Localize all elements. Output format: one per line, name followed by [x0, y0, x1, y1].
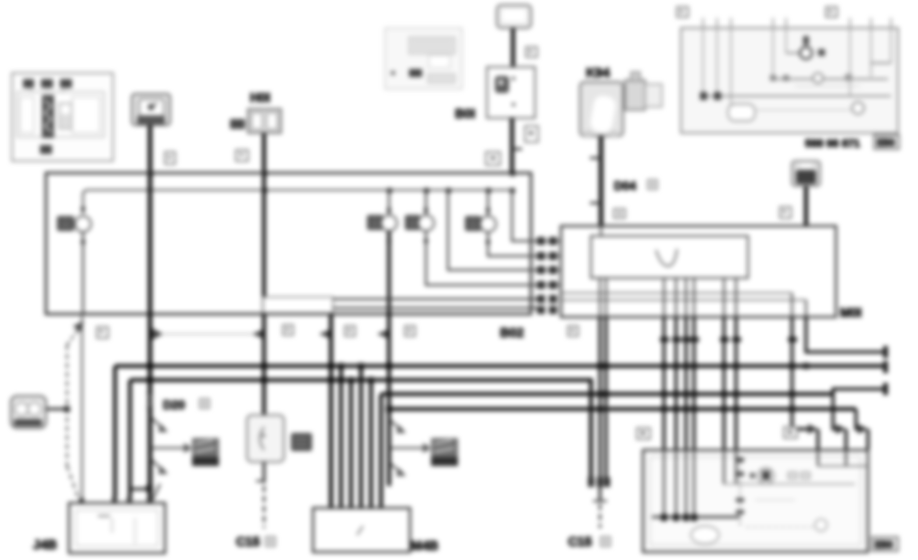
wire M4B 3 from bus2 — [349, 380, 353, 508]
wire M0I to E-box f — [735, 317, 738, 450]
pin square on E-box top left — [637, 428, 650, 439]
wire below junction — [599, 487, 602, 501]
wire connector P to M0I — [804, 186, 808, 226]
dark label right of I4B — [291, 433, 312, 451]
wire M4B 2 from bus1 — [339, 366, 343, 508]
wire M0I right g to arrow — [792, 317, 808, 429]
stub on B0I wire — [512, 148, 522, 150]
bus wire 3 — [381, 392, 833, 396]
wires M0I down to C15 right — [599, 317, 602, 484]
node lamp junction — [64, 406, 70, 412]
wire row5 from inner rect — [333, 298, 537, 300]
shield/ground symbol S2 — [431, 438, 458, 466]
wire row6 from inner rect — [333, 307, 537, 309]
node: B02 top entry dots — [148, 171, 515, 176]
tick on K94 wire — [590, 157, 601, 159]
wire H0I through B02 — [262, 174, 266, 314]
bus4 corner down to arrow — [856, 409, 858, 429]
wire F4: feed to fuse — [487, 190, 489, 216]
svg-text:C15: C15 — [568, 534, 592, 549]
lamp L1 — [11, 396, 46, 428]
bus wire 1 — [115, 364, 884, 368]
ignition device B0I — [487, 67, 535, 118]
pin label right of B0I wire — [525, 126, 538, 142]
wire H0I fuse down to I4B — [262, 314, 266, 415]
junction box B02 (main wide box) — [46, 173, 531, 314]
relay K94 — [580, 72, 662, 138]
svg-text:C15: C15 — [236, 534, 260, 549]
wire B0I to B02 — [510, 118, 514, 174]
wire F1 down — [82, 232, 84, 314]
node dots on feed line — [262, 188, 515, 193]
wire H0I to B02 — [262, 133, 266, 174]
svg-text:D04: D04 — [614, 179, 636, 193]
svg-text:M0I: M0I — [840, 305, 862, 320]
pin square x345 — [345, 326, 355, 336]
inner connector rect at B02 bottom — [263, 297, 333, 313]
instrument cluster box (faint) — [385, 28, 462, 89]
bus3 jog to right edge — [833, 389, 884, 394]
wire S1 through B02 — [148, 174, 152, 314]
branch arrows from wire 150 to shield S1 — [150, 416, 163, 429]
wire internal x448 to row3 — [448, 190, 537, 270]
wire B0I branch to row1 — [512, 190, 537, 241]
branch arrows on wire 389 — [389, 419, 401, 430]
wire B02 to J4B thick (D20 wire) — [148, 314, 152, 503]
module M1 (top-left fuse/relay module) — [12, 73, 113, 161]
svg-text:K94: K94 — [586, 65, 611, 80]
wire M4B 5 from bus2 — [369, 380, 373, 508]
fuse F3 — [405, 208, 434, 243]
connector P (right, above M0I) — [792, 161, 820, 186]
connector D20 bracket on wire 150 — [147, 393, 152, 408]
dashed diagonal into J4B — [67, 466, 79, 500]
junction unit J4B — [69, 497, 165, 553]
svg-text:J4B: J4B — [33, 537, 57, 552]
connector block B02-M0I rows — [531, 237, 561, 314]
svg-text:E50: E50 — [875, 540, 893, 551]
crossing dots on buses — [147, 363, 809, 412]
sheet label E50 bottom — [872, 537, 898, 551]
svg-text:588 98 871: 588 98 871 — [805, 138, 860, 150]
pin 1 label under S1 — [165, 152, 175, 164]
connector above B0I — [497, 5, 531, 28]
wire M0I right h to edge — [806, 317, 884, 352]
wire B02 to M4B 1 — [329, 314, 333, 508]
arrow into wire 265 — [252, 329, 264, 339]
thin jumper line — [163, 333, 252, 335]
wire K94 to M0I — [599, 136, 603, 226]
label D04 with marker — [614, 179, 657, 193]
wire arrow to E-box right b — [845, 429, 848, 450]
pin 2 label left of H0I wire — [236, 150, 248, 161]
svg-text:H0I: H0I — [250, 90, 270, 105]
fuse F1 — [57, 207, 91, 244]
sensor I4B — [247, 415, 284, 462]
engine unit M4B — [313, 508, 410, 552]
wire arrow to E-box right c — [867, 429, 870, 450]
component H0I (connector body) — [230, 109, 281, 133]
wire M4B 4 from bus1 — [359, 366, 363, 508]
wire M0I to E-box e — [723, 317, 726, 450]
svg-text:D20: D20 — [163, 398, 185, 412]
flag arrow on wire 150 — [152, 328, 163, 340]
wire M0I to E-box a — [663, 317, 666, 450]
svg-text:B0I: B0I — [455, 106, 475, 121]
pin square x405 — [405, 326, 415, 336]
pin square on E-box top right — [784, 427, 797, 438]
bus wire 4 — [389, 407, 856, 411]
wire F2: feed line to fuse — [388, 190, 390, 215]
control unit E (top-right box) — [681, 18, 898, 133]
engine compartment unit E5 (bottom right box) — [643, 450, 868, 552]
label C15 left with marker — [236, 534, 275, 549]
fuse F2 — [367, 208, 397, 243]
pin label above control unit right — [826, 7, 837, 17]
wire S1 to B02 — [148, 125, 152, 174]
pin square under M0I — [568, 326, 578, 336]
wire F3 to connector row4 — [426, 231, 537, 285]
connector end tick 2 — [883, 361, 888, 373]
label D20 with marker — [163, 398, 209, 412]
wire bus1 corner down to J4B — [113, 366, 117, 503]
pin row under B02: dashed diagonal with arrow at x83 — [67, 327, 80, 345]
wire F2 down and out of box — [387, 231, 391, 314]
wire M0I to E-box d — [693, 317, 696, 450]
connector end tick 1 — [883, 346, 888, 358]
connector end tick 3 — [883, 383, 888, 395]
wire F2 down to bus4 and ground branch — [387, 314, 391, 486]
splice marks on M0I output wires — [660, 337, 797, 342]
wire B02 to J4B thin — [81, 314, 83, 503]
label C15 right with marker — [568, 534, 610, 549]
wire F4 to connector row2 — [488, 232, 537, 256]
shield/ground symbol S1 — [192, 438, 219, 466]
wire M0I to E-box b — [675, 317, 678, 450]
diagonal stub into J4B right entry — [152, 484, 160, 501]
pin label right of wire — [526, 47, 537, 57]
splice bar at C15 right junction — [588, 477, 610, 487]
node dot at 150,489 — [146, 485, 153, 492]
arrow into wire 331 — [319, 329, 331, 339]
control module M0I — [561, 226, 836, 317]
sheet label E50 top — [874, 135, 899, 149]
tie line at y489 — [130, 488, 150, 491]
bus3 corner down to arrow — [833, 394, 836, 429]
wire connector to B0I — [511, 28, 515, 67]
svg-text:B02: B02 — [500, 325, 524, 340]
arrow into wire 389 — [377, 329, 389, 339]
svg-text:M4B: M4B — [411, 538, 438, 553]
pin square x283 — [283, 325, 293, 335]
wire lamp to dashed column — [46, 408, 67, 410]
wire bus2 corner down to J4B — [128, 380, 132, 503]
internal feed line in B02 — [83, 190, 512, 214]
pin label on D04 wire — [614, 209, 625, 218]
tick on K94 wire 2 — [590, 202, 601, 204]
fuse F4 — [465, 208, 496, 244]
wire M4B 6 from bus3 — [379, 394, 383, 508]
pin label left of P wire — [780, 207, 791, 218]
switch S1 (small component feeding wire at x=150) — [132, 94, 170, 125]
svg-text:E50: E50 — [877, 138, 895, 149]
dashed wire left column — [66, 345, 68, 466]
pin label left of B0I wire — [486, 152, 500, 165]
bus wire 2 — [130, 380, 591, 482]
wire F3: feed line to fuse — [425, 190, 427, 215]
wire I4B down to C15 — [263, 462, 266, 483]
pin square x97 — [97, 327, 108, 338]
wire arrow to E-box right a — [817, 429, 820, 450]
wire M0I to E-box c — [685, 317, 688, 450]
pin label above control unit left — [677, 7, 688, 17]
